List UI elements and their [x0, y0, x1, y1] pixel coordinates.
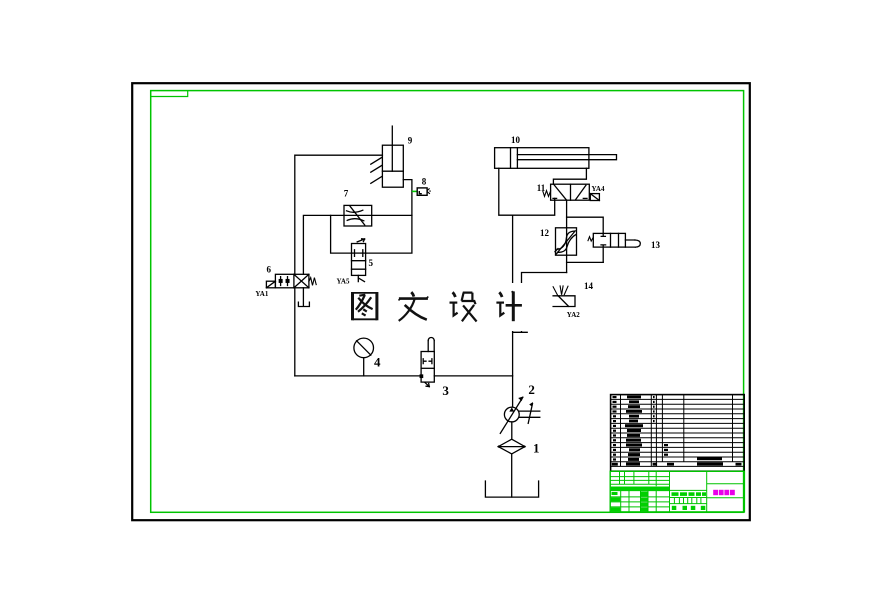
watermark char SHE — [450, 292, 477, 321]
svg-text:YA1: YA1 — [255, 290, 268, 298]
svg-text:9: 9 — [408, 135, 413, 145]
pump supply line (vertical) — [512, 215, 514, 406]
green wire to sensor 8 — [412, 190, 417, 192]
svg-text:12: 12 — [540, 228, 550, 238]
svg-text:14: 14 — [584, 281, 594, 291]
svg-text:13: 13 — [651, 240, 661, 250]
parts list table — [611, 395, 745, 472]
return line corner behind watermark — [513, 273, 567, 333]
wire: valve 11 to flow valve 12 and branch to valve 13 — [566, 200, 568, 228]
bottom bus wire — [295, 375, 513, 377]
line pump to filter — [511, 422, 513, 439]
wire: valve6 left port down to pump bus — [294, 288, 296, 376]
cylinder 10 — [495, 148, 617, 169]
watermark char JI — [496, 291, 522, 321]
watermark char TU — [353, 292, 377, 320]
main vertical splits — [670, 471, 707, 512]
title block green fills/text — [611, 487, 706, 512]
watermark white boxes — [344, 283, 530, 331]
svg-text:3: 3 — [442, 383, 449, 398]
pump 2 — [500, 396, 540, 433]
left section verticals top — [620, 471, 657, 486]
left section verticals bottom — [621, 491, 657, 512]
row lines — [611, 399, 745, 461]
svg-text:5: 5 — [369, 258, 374, 268]
pressure sensor 8 — [417, 188, 431, 195]
svg-text:YA5: YA5 — [337, 278, 350, 286]
wire: valve 12 bottom, branch to valve 13 bottom, return corner — [566, 255, 568, 272]
svg-text:YA2: YA2 — [567, 311, 580, 319]
flow control valve 12 — [555, 228, 577, 255]
wire: cylinder 9 bottom port to node above valve 7 line — [403, 180, 412, 216]
svg-text:8: 8 — [422, 177, 427, 187]
flow control valve 7 — [344, 205, 372, 226]
solenoid valve 6 — [266, 274, 316, 288]
svg-text:YA4: YA4 — [592, 185, 605, 193]
svg-text:1: 1 — [533, 441, 540, 456]
parts table text blobs — [612, 396, 742, 466]
pressure gauge 4 — [354, 338, 374, 376]
main tank — [485, 481, 538, 497]
wire: valve6 right port up and across through valve 7 — [303, 215, 412, 274]
sequence valve 5 — [352, 239, 366, 282]
wire: valve6 right port down to drain tank — [302, 288, 304, 307]
svg-text:7: 7 — [344, 189, 349, 199]
svg-text:2: 2 — [528, 382, 535, 397]
svg-text:10: 10 — [511, 135, 521, 145]
small tank under valve 6 — [298, 302, 309, 306]
title block green grid — [610, 471, 744, 512]
hatch marks (mounting) left of cylinder 9 — [371, 157, 382, 183]
inner green frame — [151, 91, 744, 513]
outer black border frame — [132, 83, 750, 520]
valve 13 — [588, 233, 640, 262]
svg-text:4: 4 — [374, 354, 381, 369]
wire: cylinder 10 cap port down to valve 11 left port — [499, 168, 555, 215]
middle section rows — [670, 490, 707, 503]
limit switch 14 — [553, 286, 575, 307]
svg-text:11: 11 — [537, 183, 546, 193]
component number labels — [374, 354, 540, 455]
svg-text:6: 6 — [267, 265, 272, 275]
filter 1 — [498, 439, 526, 454]
column lines — [621, 395, 733, 467]
stop valve 3 — [420, 338, 434, 387]
green corner tab — [151, 91, 188, 97]
directional valve 11 — [543, 184, 600, 200]
wire: valve6 left port up to cylinder 9 left port — [295, 155, 383, 274]
line filter to tank — [511, 454, 513, 497]
wire: bypass loop around valve 7 via component 5 — [331, 215, 352, 253]
watermark char WEN — [399, 292, 429, 321]
cylinder 9 — [382, 126, 403, 187]
left section rows — [610, 477, 669, 485]
title block magenta company text — [713, 490, 735, 495]
right section rows — [707, 484, 745, 498]
wire: cylinder 10 rod port to valve 11 top port — [553, 168, 586, 184]
